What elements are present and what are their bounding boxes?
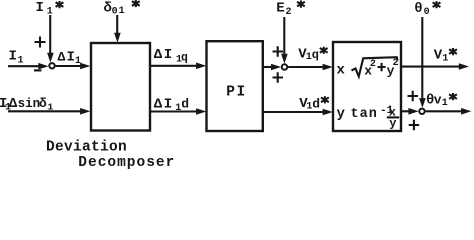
svg-text:tan: tan <box>351 107 378 122</box>
arrow into U3 top input <box>323 64 333 71</box>
arrow into summing junction S1 <box>38 63 48 70</box>
svg-text:2: 2 <box>393 58 399 69</box>
svg-text:Δ: Δ <box>58 50 66 65</box>
wire U1 to U2 (dI1d) <box>150 110 199 112</box>
arrow into U1 bottom input <box>80 108 90 115</box>
arrow thetav1* output <box>461 108 471 115</box>
arrow E2* into S2 <box>281 54 288 64</box>
plus sign lower at S3 <box>409 120 420 131</box>
radical sign in U3 <box>352 57 398 76</box>
arrow into U2 top input <box>196 63 206 70</box>
wire E2* vertical drop <box>283 17 285 57</box>
wire delta01* vertical drop <box>116 15 118 37</box>
plus sign upper at S2 <box>273 46 284 57</box>
svg-text:q: q <box>312 48 319 62</box>
arrow theta0* into S3 <box>419 98 426 108</box>
wire U2 to U3 (V1d*) <box>263 111 325 113</box>
wire U3 to summing junction S3 <box>401 110 414 112</box>
plus sign upper at S3 <box>408 91 419 102</box>
svg-text:1: 1 <box>18 56 24 67</box>
svg-text:I: I <box>67 50 75 66</box>
arrow delta01* into U1 <box>114 33 121 43</box>
svg-text:θ: θ <box>414 1 422 17</box>
wire I1 dsin input <box>8 110 84 112</box>
svg-text:I: I <box>164 96 172 112</box>
svg-text:q: q <box>181 51 188 64</box>
svg-text:d: d <box>312 96 320 111</box>
arrow into S2 <box>271 64 281 71</box>
wire I1* vertical drop <box>49 15 51 56</box>
wire S3 to thetav1* output <box>426 110 463 112</box>
svg-text:0: 0 <box>112 6 118 17</box>
svg-text:sin: sin <box>18 97 41 111</box>
summing junction S1 <box>49 63 54 68</box>
svg-text:Decomposer: Decomposer <box>78 155 175 171</box>
svg-text:1: 1 <box>442 98 448 109</box>
svg-text:δ: δ <box>39 96 47 111</box>
svg-text:I: I <box>164 47 172 63</box>
svg-text:d: d <box>181 97 189 112</box>
svg-text:1: 1 <box>442 53 448 64</box>
svg-text:2: 2 <box>286 7 292 18</box>
block U2 PI controller <box>207 41 263 131</box>
summing junction S3 <box>419 109 424 114</box>
wire S1 to U1 (dI1) <box>55 65 83 67</box>
svg-text:PI: PI <box>226 85 246 101</box>
svg-text:y: y <box>389 116 396 130</box>
svg-text:2: 2 <box>370 59 376 70</box>
arrow into S3 <box>408 108 418 115</box>
svg-text:1: 1 <box>48 101 54 112</box>
svg-text:1: 1 <box>47 7 53 18</box>
svg-text:I: I <box>36 0 44 16</box>
svg-text:Δ: Δ <box>154 96 163 112</box>
svg-text:v: v <box>434 92 442 107</box>
fraction bar <box>387 116 399 118</box>
minus sign at S1 <box>34 69 42 71</box>
arrow into U3 bottom input <box>323 109 333 116</box>
svg-text:x: x <box>337 63 346 79</box>
svg-text:y: y <box>337 106 346 122</box>
arrow into U1 top input <box>80 63 90 70</box>
arrow into U2 bottom input <box>196 108 206 115</box>
svg-text:1: 1 <box>119 6 125 17</box>
wire U3 to V1* output <box>401 66 461 68</box>
wire U1 to U2 (dI1q) <box>150 65 199 67</box>
svg-text:E: E <box>276 1 284 17</box>
svg-text:Δ: Δ <box>154 47 163 63</box>
svg-text:Δ: Δ <box>9 96 18 112</box>
wire I1 input <box>8 65 41 67</box>
arrow I1* into S1 <box>47 53 54 63</box>
wire S2 to U3 (V1q*) <box>288 66 326 68</box>
svg-text:I: I <box>9 49 17 65</box>
plus sign lower at S2 <box>273 72 284 83</box>
block U3 polar transform <box>333 42 401 131</box>
svg-text:1: 1 <box>75 56 81 67</box>
wire U2 to summing junction S2 <box>263 66 274 68</box>
arrow V1* output <box>459 63 469 70</box>
svg-text:Deviation: Deviation <box>46 140 127 156</box>
plus sign at S1 <box>35 37 46 48</box>
wire theta0* vertical drop <box>421 17 423 104</box>
summing junction S2 <box>282 64 287 69</box>
svg-text:0: 0 <box>424 7 430 18</box>
block U1 Deviation Decomposer <box>91 43 150 131</box>
